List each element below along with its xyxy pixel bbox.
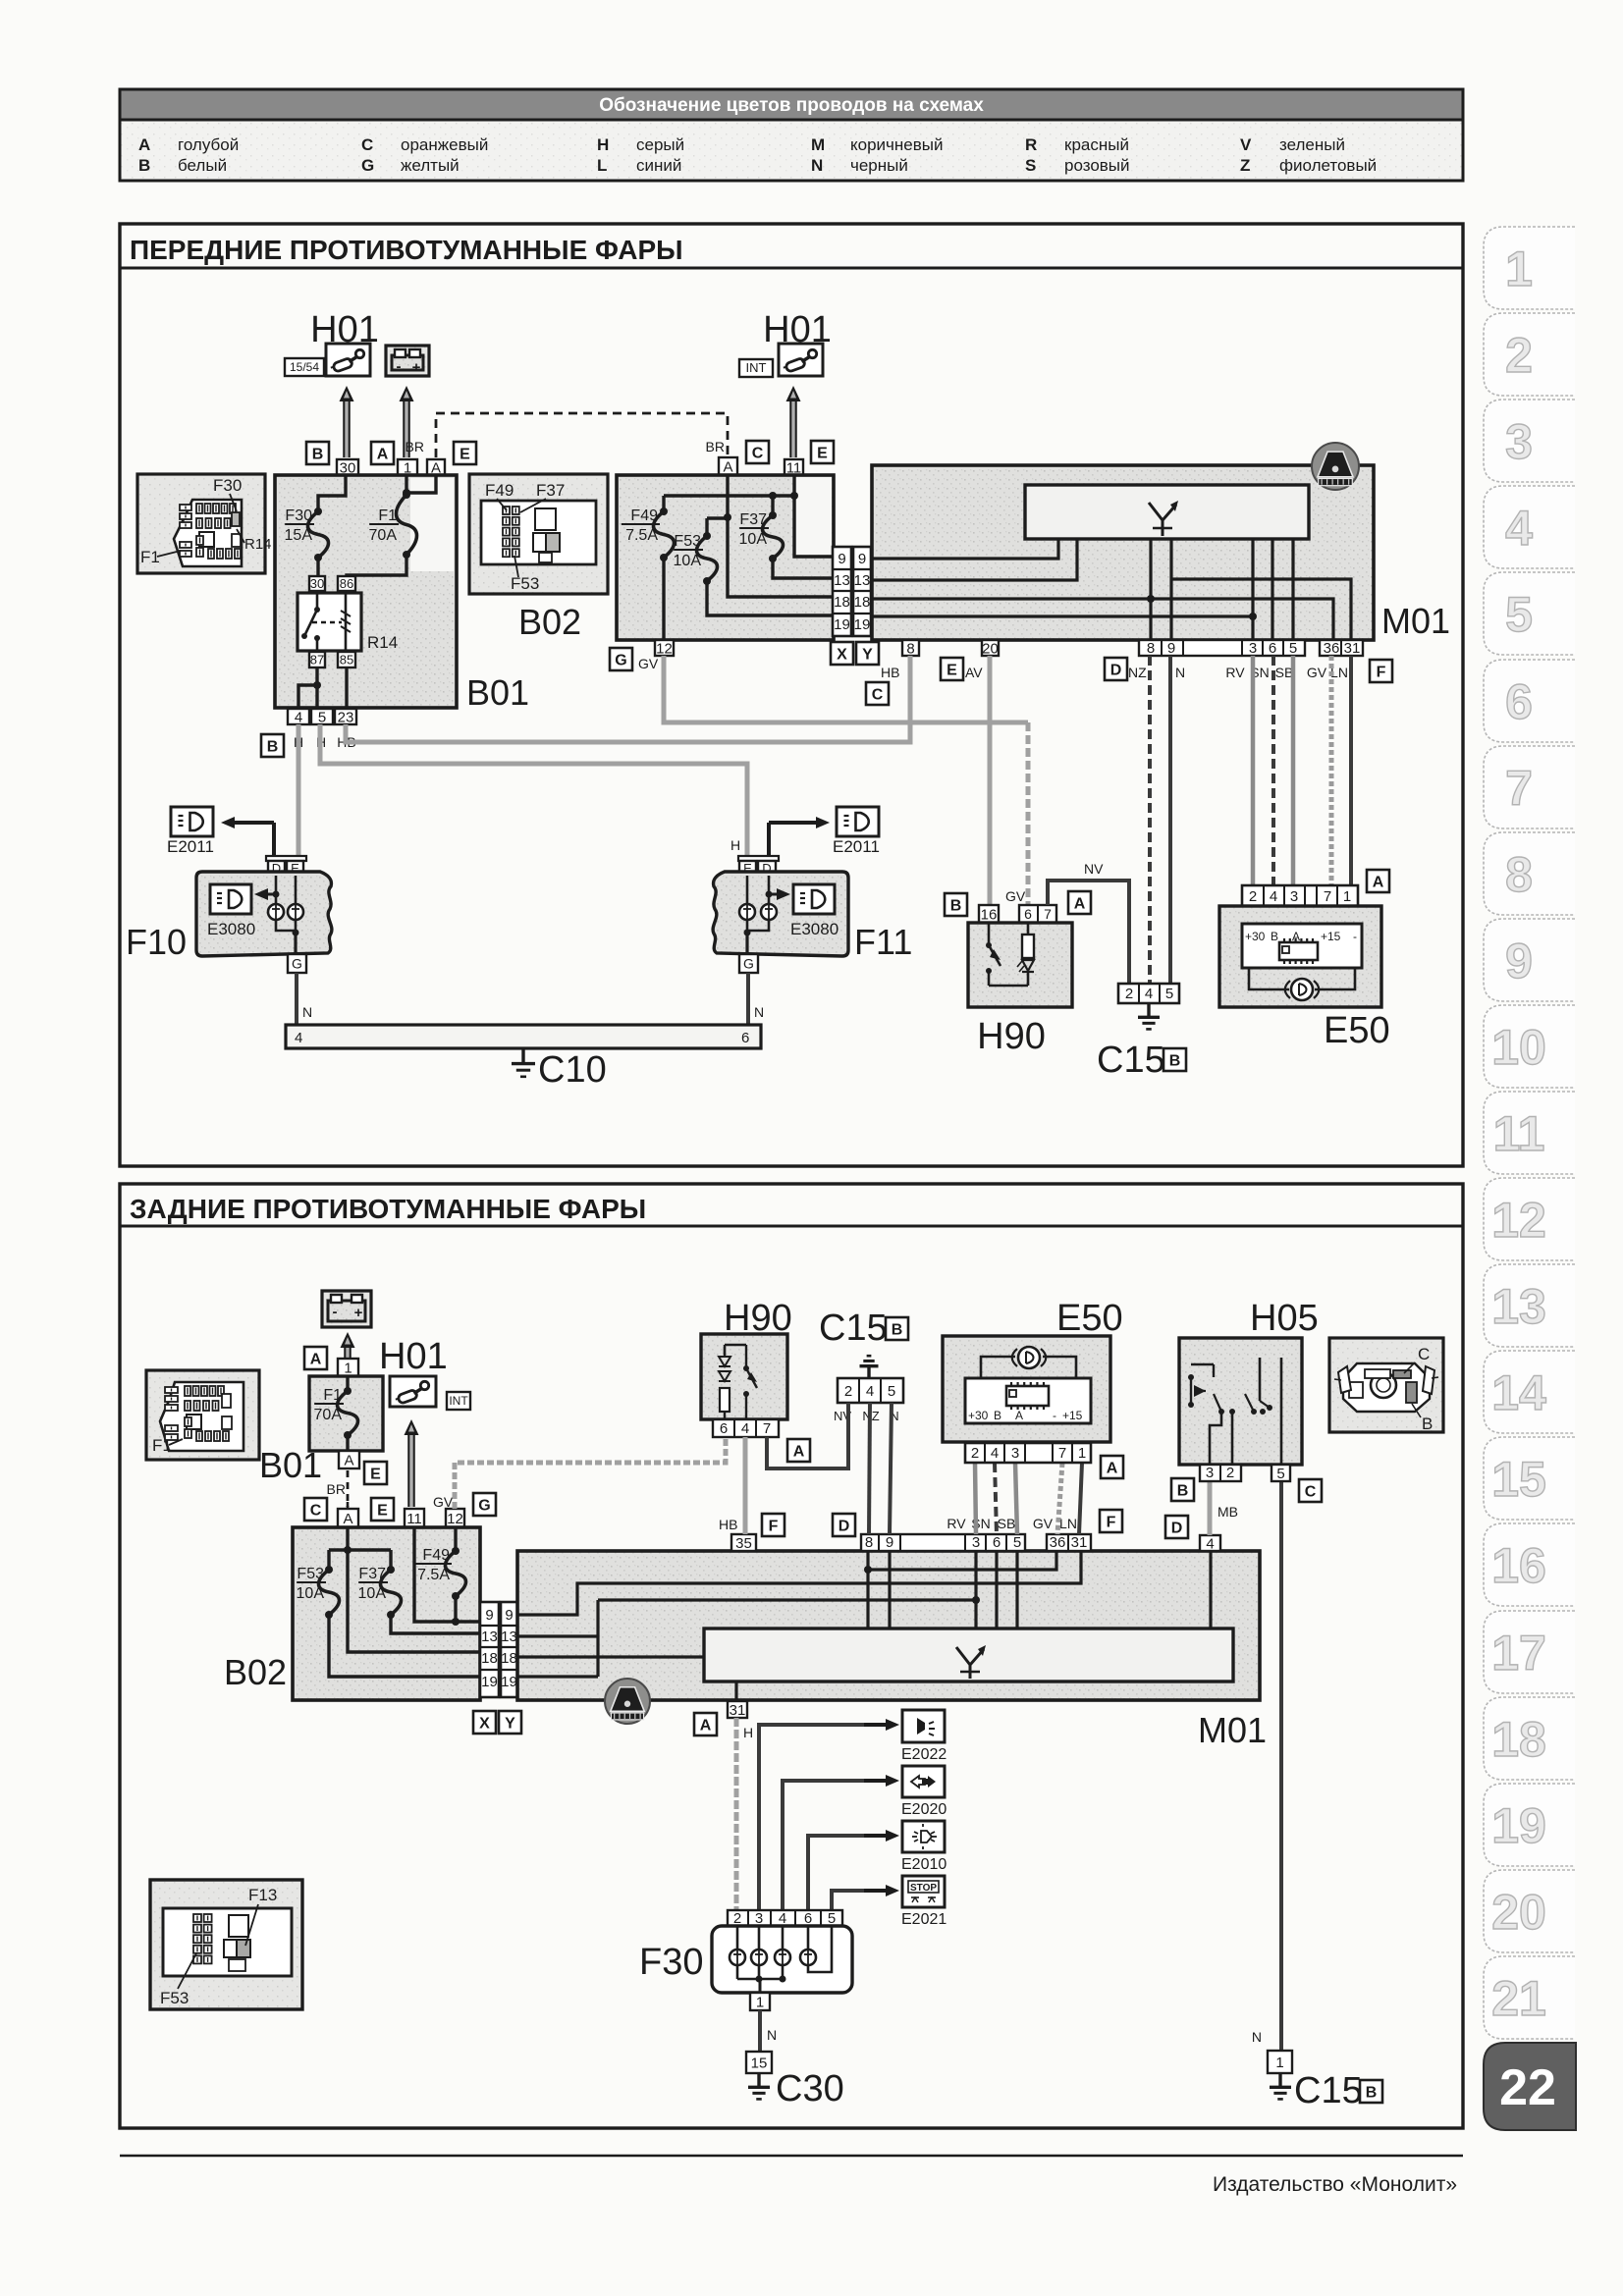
F10 pin E box <box>287 861 303 876</box>
wire 87 split <box>315 667 318 683</box>
svg-text:C: C <box>1305 1483 1317 1500</box>
E50 lamp loop <box>1249 968 1289 989</box>
wire to E2010 <box>808 1836 876 1910</box>
icon E2011 right <box>837 807 879 836</box>
svg-text:7.5A: 7.5A <box>625 527 658 544</box>
svg-text:2: 2 <box>1226 1465 1234 1481</box>
pin 31 box (below M01) <box>728 1701 747 1718</box>
wire NV (d2) <box>767 1403 848 1468</box>
svg-text:Издательство «Монолит»: Издательство «Монолит» <box>1213 2173 1457 2196</box>
unit M01 body (d2) <box>517 1551 1260 1700</box>
relay R14 body <box>298 593 361 651</box>
svg-text:1: 1 <box>1505 241 1533 296</box>
pin 4 box <box>288 709 309 724</box>
ignition key icon <box>326 344 370 376</box>
svg-text:NZ: NZ <box>1128 665 1147 680</box>
diagram 2 frame <box>120 1184 1463 2128</box>
svg-text:E3080: E3080 <box>207 920 255 938</box>
svg-text:красный: красный <box>1064 135 1129 154</box>
route box A <box>371 442 394 464</box>
svg-text:C: C <box>361 135 373 154</box>
M01 wire pin36 link (d2) <box>868 1551 1056 1570</box>
arrow F11 to E2011 <box>767 823 771 858</box>
diagram 1 frame <box>120 224 1463 1166</box>
wire AV to H90-16 <box>988 656 993 905</box>
route box C (d2) <box>304 1498 327 1521</box>
fusebox B02 pictogram <box>481 501 596 564</box>
M01 wire pin9 riser <box>1169 539 1172 640</box>
wire RV (d2) <box>975 1463 976 1534</box>
svg-text:белый: белый <box>178 156 227 175</box>
wire GV to H90-6 <box>664 656 1028 722</box>
svg-text:RV: RV <box>1225 665 1245 680</box>
svg-text:F30: F30 <box>213 476 242 495</box>
connector C15 (d2) <box>838 1378 903 1403</box>
route box D (M01) <box>1105 658 1127 680</box>
relay pin 86 box <box>338 576 355 591</box>
svg-text:F: F <box>1107 1514 1116 1530</box>
wire SN to E50-4 <box>1271 656 1275 885</box>
wire H to F11 <box>320 724 747 858</box>
pin 5 box <box>311 709 333 724</box>
F10 pin G box <box>288 954 306 973</box>
F11 pin E box <box>739 861 756 876</box>
svg-text:зеленый: зеленый <box>1279 135 1345 154</box>
battery icon (d2) <box>322 1291 371 1327</box>
route box C (M01) <box>866 682 889 705</box>
M01 internal symbol (d2) <box>956 1647 970 1665</box>
svg-text:H05: H05 <box>1250 1298 1319 1339</box>
icon E3080 left <box>210 884 251 914</box>
wire H05-5 to C15 (d2) <box>1279 1481 1283 2051</box>
svg-text:8: 8 <box>865 1534 873 1551</box>
svg-text:1: 1 <box>1078 1445 1086 1462</box>
pin 23 box <box>335 709 356 724</box>
wire GV (d2) <box>455 1437 726 1509</box>
M01 wire pin31out riser (d2) <box>734 1682 737 1701</box>
svg-text:19: 19 <box>854 616 871 633</box>
H05 pin 5 box <box>1271 1465 1290 1481</box>
svg-text:3: 3 <box>1290 888 1298 905</box>
svg-text:31: 31 <box>730 1702 746 1719</box>
svg-text:2: 2 <box>1125 986 1133 1002</box>
pin 15 box <box>746 2052 772 2073</box>
svg-text:19: 19 <box>501 1674 517 1690</box>
wire BR (dashed) <box>436 413 728 457</box>
svg-text:10: 10 <box>1491 1020 1546 1075</box>
svg-text:E3080: E3080 <box>790 920 839 938</box>
svg-text:RV: RV <box>947 1516 966 1531</box>
M01 wire row13 <box>872 539 1077 580</box>
footer rule <box>120 2155 1463 2157</box>
E50 lamp symbol <box>1291 979 1313 1000</box>
svg-text:D: D <box>1171 1520 1183 1536</box>
pin 30 box <box>337 459 358 475</box>
relay pin 87 box <box>309 652 325 667</box>
pin 12 box <box>655 640 674 656</box>
F11 internal arrow <box>766 891 773 898</box>
svg-text:E2010: E2010 <box>901 1856 947 1873</box>
svg-text:R: R <box>1025 135 1037 154</box>
svg-text:35: 35 <box>735 1535 752 1552</box>
svg-text:H: H <box>743 1725 753 1740</box>
svg-text:3: 3 <box>1505 414 1533 469</box>
svg-text:+: + <box>354 1305 363 1321</box>
F10 pin D box <box>268 861 285 876</box>
route box A (batt) <box>304 1347 327 1369</box>
svg-text:E2022: E2022 <box>901 1746 947 1763</box>
route box D (d2a) <box>833 1514 855 1536</box>
M01 wire row18 (d2) <box>517 1655 704 1658</box>
ground symbol C15 (d2) <box>867 1366 870 1378</box>
M01 wire pin5 riser (d2) <box>1015 1551 1018 1629</box>
svg-text:F1: F1 <box>323 1387 342 1404</box>
ignition key icon (d2) <box>390 1376 436 1407</box>
fuse F49 7.5A <box>662 496 665 509</box>
svg-text:A: A <box>1015 1409 1023 1422</box>
H90 internals (d2) <box>724 1350 726 1355</box>
M01 wire row9 (d2) <box>517 1551 1081 1615</box>
svg-text:8: 8 <box>1147 640 1155 657</box>
svg-text:3: 3 <box>1249 640 1257 657</box>
route box B (d2 H05) <box>1171 1478 1194 1501</box>
svg-text:желтый: желтый <box>401 156 460 175</box>
svg-text:B: B <box>994 1409 1001 1422</box>
svg-text:E: E <box>947 662 957 678</box>
svg-text:V: V <box>1240 135 1252 154</box>
wire GV to 36 (d2) <box>1057 1463 1062 1534</box>
svg-text:A: A <box>793 1443 805 1460</box>
M01 wire pin6 riser <box>1271 539 1273 640</box>
route box F (d2a) <box>762 1514 784 1536</box>
svg-text:ПЕРЕДНИЕ ПРОТИВОТУМАННЫЕ ФАРЫ: ПЕРЕДНИЕ ПРОТИВОТУМАННЫЕ ФАРЫ <box>130 235 683 265</box>
svg-text:BR: BR <box>706 439 725 454</box>
route box C (d2 H05) <box>1299 1479 1322 1502</box>
wire F1 to relay 86 <box>347 555 406 576</box>
svg-text:7: 7 <box>763 1420 771 1437</box>
svg-text:86: 86 <box>340 576 353 591</box>
svg-text:16: 16 <box>1491 1538 1546 1593</box>
svg-text:GV: GV <box>638 656 659 671</box>
svg-text:G: G <box>292 956 302 972</box>
svg-text:B: B <box>312 446 324 462</box>
battery icon B+ <box>386 346 429 376</box>
svg-text:C15: C15 <box>1097 1040 1165 1081</box>
svg-text:18: 18 <box>1491 1712 1546 1767</box>
svg-text:G: G <box>743 956 754 972</box>
svg-text:GV: GV <box>1307 665 1327 680</box>
pin A box (B02 d2) <box>338 1509 358 1527</box>
fuse F53 (d2) <box>327 1550 330 1568</box>
ignition key icon 2 <box>779 344 823 376</box>
fusebox pictogram <box>174 500 242 566</box>
svg-text:F37: F37 <box>739 511 767 528</box>
route box E (d2b) <box>371 1498 394 1521</box>
svg-text:31: 31 <box>1071 1534 1088 1551</box>
F11 pin bar <box>738 856 779 861</box>
svg-text:G: G <box>615 652 626 668</box>
svg-text:SB: SB <box>998 1516 1016 1531</box>
fusebox inset frame (d2 low) <box>150 1880 302 2009</box>
M01 wire row19 <box>872 614 1253 617</box>
arrow to battery <box>403 400 410 457</box>
wire BR dash (d2) <box>347 1470 350 1507</box>
svg-text:SB: SB <box>1275 665 1294 680</box>
unit M01 body <box>872 465 1374 640</box>
F30 bus <box>736 1965 739 1979</box>
route box B (d2 C15) <box>886 1317 908 1340</box>
svg-text:15: 15 <box>1491 1452 1546 1507</box>
svg-text:23: 23 <box>338 709 354 725</box>
svg-text:36: 36 <box>1050 1534 1066 1551</box>
svg-text:E2011: E2011 <box>833 837 880 856</box>
svg-text:MB: MB <box>1217 1504 1238 1520</box>
svg-text:3: 3 <box>972 1534 980 1551</box>
svg-text:31: 31 <box>1344 640 1361 657</box>
connector X/Y (d2) <box>480 1602 499 1697</box>
svg-text:X: X <box>837 646 847 663</box>
F10 internal arrow <box>273 891 280 898</box>
svg-text:A: A <box>723 458 732 475</box>
wire fuse top bus (d2) <box>329 1548 391 1551</box>
svg-text:12: 12 <box>1491 1193 1546 1248</box>
F10 bulb wires <box>276 920 296 931</box>
svg-text:E50: E50 <box>1324 1010 1390 1051</box>
svg-text:NV: NV <box>1084 861 1104 877</box>
svg-text:E: E <box>377 1502 388 1519</box>
wire to E2020 <box>783 1781 876 1910</box>
svg-text:+15: +15 <box>1321 930 1341 943</box>
svg-text:6: 6 <box>720 1420 728 1437</box>
pin 1 box (d2) <box>338 1359 358 1376</box>
svg-text:F49: F49 <box>422 1547 450 1564</box>
svg-text:4: 4 <box>1270 888 1277 905</box>
svg-text:1: 1 <box>1275 2055 1283 2071</box>
svg-text:70A: 70A <box>314 1407 343 1423</box>
svg-text:13: 13 <box>481 1629 498 1645</box>
svg-text:H: H <box>730 837 740 853</box>
svg-text:B: B <box>892 1321 903 1338</box>
svg-text:M: M <box>811 135 825 154</box>
unit B01 inner white notch <box>410 478 454 571</box>
wire pin11 down <box>794 475 832 557</box>
pin 12 box (d2) <box>446 1509 464 1527</box>
svg-text:F53: F53 <box>160 1989 189 2007</box>
route box A (E50) <box>1367 870 1389 892</box>
unit E50 body (d2) <box>943 1336 1110 1442</box>
F11 pin G box <box>739 954 758 973</box>
relay pin 30 box <box>309 576 325 591</box>
svg-text:-: - <box>333 1304 338 1320</box>
svg-text:6: 6 <box>741 1030 749 1046</box>
svg-text:A: A <box>377 446 389 462</box>
svg-text:11: 11 <box>1493 1106 1545 1161</box>
unit M01 inner box <box>1025 485 1309 539</box>
fuse F30 15A <box>314 507 322 515</box>
svg-text:5: 5 <box>1289 640 1297 657</box>
route box D (d2b) <box>1165 1516 1188 1538</box>
svg-text:70A: 70A <box>369 527 398 544</box>
svg-text:Y: Y <box>505 1715 515 1732</box>
svg-text:15A: 15A <box>285 527 313 544</box>
ground symbol C15 <box>1147 1003 1150 1017</box>
svg-text:BR: BR <box>406 439 424 454</box>
svg-text:+15: +15 <box>1062 1409 1083 1422</box>
svg-text:9: 9 <box>505 1607 513 1624</box>
pin 11 box <box>784 459 803 475</box>
svg-text:HB: HB <box>881 665 899 680</box>
arrow to H01 15/54 <box>343 400 351 457</box>
svg-text:G: G <box>361 156 374 175</box>
svg-text:X: X <box>479 1715 490 1732</box>
svg-text:E2011: E2011 <box>167 837 214 856</box>
svg-text:A: A <box>310 1351 322 1367</box>
F11 bulb 1 <box>746 876 749 904</box>
svg-text:13: 13 <box>834 572 850 589</box>
svg-text:-: - <box>397 358 402 375</box>
svg-text:4: 4 <box>1145 986 1153 1002</box>
svg-text:13: 13 <box>854 572 871 589</box>
svg-text:16: 16 <box>981 906 998 923</box>
svg-text:N: N <box>302 1004 312 1020</box>
H90 bottom link <box>989 985 1028 988</box>
M01 pin strip (d2) <box>861 1534 1025 1551</box>
svg-text:5: 5 <box>1276 1466 1284 1482</box>
svg-text:9: 9 <box>838 551 845 567</box>
wire NZ (d2) <box>869 1403 870 1534</box>
svg-text:5: 5 <box>1165 986 1173 1002</box>
F30 bulb 1 <box>736 1926 739 1949</box>
svg-text:+: + <box>412 359 421 376</box>
svg-text:E: E <box>460 446 470 462</box>
wire N (F30) <box>758 2010 762 2052</box>
M01 wire pin3 riser <box>1251 539 1254 640</box>
svg-text:A: A <box>1074 895 1086 912</box>
M01 pin 35 box <box>731 1534 756 1551</box>
wire H to F30 (d2) <box>734 1718 739 1910</box>
M01 pin strip 8-9-3-6-5 <box>1139 640 1305 656</box>
E50 lamp symbol (d2) <box>1018 1347 1040 1368</box>
route box E (M01) <box>941 658 963 680</box>
svg-text:F53: F53 <box>511 574 539 593</box>
fusebox inset frame (d2) <box>146 1370 259 1460</box>
logo Monolit (d2) <box>605 1679 650 1724</box>
svg-text:B: B <box>1169 1052 1181 1069</box>
svg-text:INT: INT <box>449 1394 468 1408</box>
svg-text:B: B <box>1177 1482 1189 1499</box>
route box C <box>746 441 769 463</box>
svg-text:30: 30 <box>310 576 324 591</box>
svg-text:7: 7 <box>1505 761 1533 816</box>
M01 wire row9 <box>872 539 1058 559</box>
arrow to H01 INT <box>789 400 797 457</box>
E50 lamp loop (d2) <box>981 1357 1015 1384</box>
route box E (d2a) <box>364 1462 387 1484</box>
wire N to C15-5 <box>1168 656 1172 984</box>
connector C15 <box>1118 984 1179 1003</box>
svg-text:10A: 10A <box>358 1585 387 1602</box>
fusebox pictogram (d2) <box>160 1382 243 1451</box>
H90 pin 16 box <box>979 905 999 923</box>
wire SB to E50-3 <box>1291 656 1296 885</box>
svg-text:B02: B02 <box>224 1652 287 1692</box>
svg-text:13: 13 <box>501 1629 517 1645</box>
logo Monolit (M01) <box>1312 443 1359 490</box>
svg-text:R14: R14 <box>244 536 272 553</box>
svg-text:коричневый: коричневый <box>850 135 943 154</box>
route box F (M01) <box>1370 660 1392 682</box>
svg-text:18: 18 <box>834 594 850 611</box>
svg-text:B: B <box>1271 930 1278 943</box>
fusebox inset frame <box>137 474 265 573</box>
svg-text:E2021: E2021 <box>901 1911 947 1928</box>
svg-text:F13: F13 <box>248 1886 277 1904</box>
connector INT box (d2) <box>447 1392 470 1410</box>
unit E50 body <box>1219 906 1381 1007</box>
svg-text:Y: Y <box>862 646 873 663</box>
M01 wire pin6 riser (d2) <box>995 1551 998 1629</box>
route box F (d2b) <box>1100 1510 1122 1532</box>
route box A (H90) <box>1068 891 1091 914</box>
svg-text:9: 9 <box>886 1534 893 1551</box>
unit B02 body (d2) <box>293 1527 480 1700</box>
svg-text:10A: 10A <box>674 553 702 569</box>
svg-text:22: 22 <box>1499 2059 1556 2116</box>
unit F10 body <box>196 872 332 956</box>
svg-text:розовый: розовый <box>1064 156 1130 175</box>
ground symbol C30 <box>757 2073 760 2087</box>
svg-text:E: E <box>817 445 828 461</box>
svg-text:C15: C15 <box>819 1308 888 1349</box>
svg-text:3: 3 <box>1011 1445 1019 1462</box>
svg-text:H01: H01 <box>379 1336 448 1377</box>
wire NZ to C15-4 <box>1148 656 1152 984</box>
arrow F10 to E2011 <box>272 823 276 858</box>
fuse F1 70A <box>403 491 410 499</box>
F30 pin strip <box>728 1910 842 1926</box>
svg-text:2: 2 <box>844 1383 852 1400</box>
svg-text:F30: F30 <box>285 507 312 524</box>
F10 pin bar <box>266 856 306 861</box>
ground symbol C15 low <box>1278 2073 1281 2087</box>
svg-text:N: N <box>1252 2029 1262 2045</box>
svg-text:A: A <box>343 1511 352 1527</box>
relay R14 coil <box>345 593 348 651</box>
svg-text:фиолетовый: фиолетовый <box>1279 156 1377 175</box>
svg-text:B01: B01 <box>259 1445 322 1485</box>
svg-text:F: F <box>769 1518 779 1534</box>
svg-text:F49: F49 <box>485 481 514 500</box>
svg-text:12: 12 <box>447 1511 463 1527</box>
svg-text:18: 18 <box>501 1650 517 1667</box>
H90 resistor <box>1027 923 1030 934</box>
icon E2010 <box>902 1821 945 1852</box>
svg-text:2: 2 <box>971 1445 979 1462</box>
M01 wire pin4 riser (d2) <box>1209 1551 1212 1629</box>
svg-text:12: 12 <box>656 640 673 657</box>
H90 pin 6-7 strip <box>1019 905 1056 923</box>
pin 1 box <box>398 459 417 475</box>
route box A (d2 lower) <box>694 1713 717 1735</box>
svg-text:B: B <box>138 156 150 175</box>
svg-text:5: 5 <box>888 1383 895 1400</box>
route box B (H90) <box>945 893 967 916</box>
route box G <box>610 648 632 670</box>
svg-text:-: - <box>1053 1409 1056 1422</box>
unit B01 body (d2) <box>309 1376 383 1451</box>
diagram 1 title <box>120 267 1463 270</box>
pin A box (B02) <box>719 457 737 475</box>
